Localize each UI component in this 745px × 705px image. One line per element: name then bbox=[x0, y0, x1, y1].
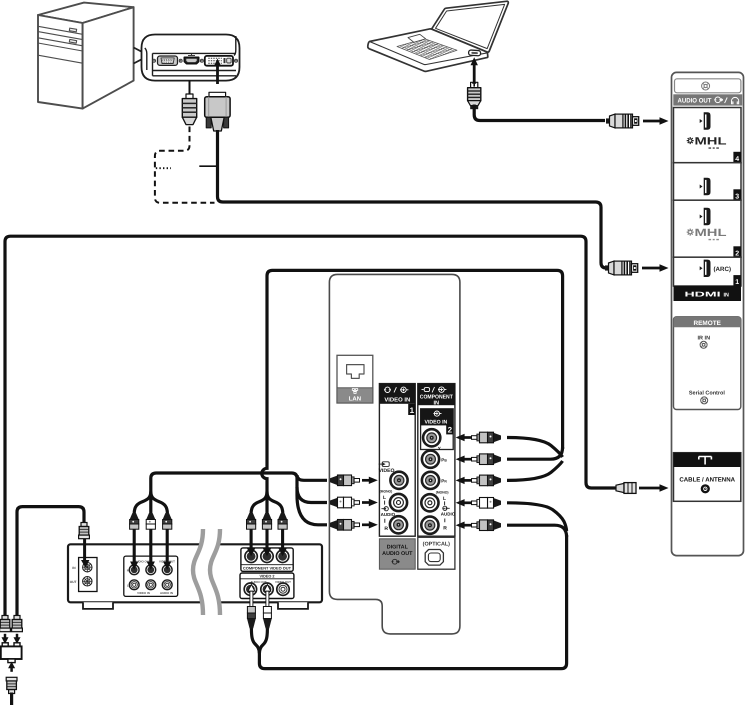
svg-text:VIDEO 2: VIDEO 2 bbox=[260, 575, 275, 579]
wire: audio fan L bbox=[507, 503, 567, 531]
f connector splitter input 1 bbox=[0, 616, 10, 632]
wire: audio bundle main run under tv bbox=[259, 535, 566, 669]
optical box bbox=[418, 537, 455, 569]
break mark band bbox=[193, 529, 220, 615]
tv side panel outline bbox=[672, 72, 744, 555]
video in 1 audio R jack bbox=[390, 516, 407, 533]
digital audio out box bbox=[379, 539, 415, 569]
svg-text:AUDIO: AUDIO bbox=[381, 512, 396, 517]
wire: av bundle receiver end fan bbox=[134, 492, 167, 515]
audio out plug R receiver bbox=[248, 585, 255, 592]
component in header bbox=[418, 384, 455, 406]
wire: av bundle tv end fan audio R bbox=[297, 495, 327, 525]
video label bbox=[379, 462, 390, 467]
wire: component fan Y bbox=[507, 438, 563, 458]
wire: audio fan R bbox=[507, 525, 567, 537]
break mark curve 2 bbox=[210, 529, 220, 615]
svg-text:COMPONENT VIDEO OUT: COMPONENT VIDEO OUT bbox=[243, 567, 292, 571]
svg-text:HDMI: HDMI bbox=[685, 292, 721, 299]
arrow into hdmi1 arc bbox=[642, 267, 660, 270]
hdmi port on pc bbox=[184, 57, 198, 63]
video 2 jacks bbox=[244, 583, 256, 595]
hdmi connector below laptop bbox=[468, 82, 481, 109]
svg-text:3: 3 bbox=[735, 193, 739, 200]
svg-text:REMOTE: REMOTE bbox=[694, 320, 722, 327]
hdmi 2 MHL logo bbox=[687, 227, 728, 240]
receiver av bottom row jacks bbox=[129, 580, 139, 590]
av plug into tv video bbox=[330, 475, 360, 486]
audio out bar bbox=[673, 94, 742, 105]
audio plug into tv R bbox=[472, 520, 502, 531]
wire: av bundle tv end fan video bbox=[297, 475, 327, 480]
component bundle plug Pr receiver bbox=[278, 513, 287, 529]
wall coax connector bbox=[6, 677, 17, 693]
component audio L jack bbox=[421, 494, 438, 511]
svg-text:2: 2 bbox=[448, 426, 453, 435]
callout blob fold lines bbox=[145, 36, 236, 70]
component Pb jack bbox=[422, 451, 439, 468]
f connector splitter input 2 bbox=[12, 616, 23, 632]
component video out group bbox=[241, 548, 293, 571]
cable antenna box bbox=[674, 453, 741, 502]
arrow up into splitter bbox=[10, 668, 13, 672]
component plug into tv Pb bbox=[472, 454, 502, 465]
hdmi section 1 arc bbox=[674, 257, 742, 286]
av bundle plug C receiver bbox=[146, 513, 155, 529]
receiver av top row jacks bbox=[129, 565, 139, 575]
laptop keyboard bbox=[397, 39, 457, 60]
svg-text:OUT: OUT bbox=[70, 580, 77, 584]
hdmi connector below pc callout bbox=[182, 94, 196, 125]
receiver antenna out jack bbox=[83, 577, 92, 586]
hdmi section 3 bbox=[674, 163, 742, 201]
svg-text:2: 2 bbox=[735, 250, 739, 257]
video 2 group bbox=[240, 573, 294, 599]
laptop base top edge bbox=[370, 42, 488, 65]
wire: component fan Pr bbox=[507, 461, 563, 480]
hdmi 3 D icon bbox=[700, 178, 711, 195]
coax connector into receiver in bbox=[79, 523, 90, 539]
svg-text:(MONO): (MONO) bbox=[436, 490, 449, 494]
audio plug into tv L bbox=[472, 498, 502, 509]
optical port icon bbox=[425, 550, 443, 566]
svg-text:IR IN: IR IN bbox=[698, 336, 711, 342]
receiver av labels bbox=[127, 560, 175, 595]
component in column box bbox=[418, 384, 455, 537]
laptop hdmi port bbox=[468, 50, 480, 56]
laptop touchpad bbox=[408, 34, 426, 42]
cable antenna jack bbox=[701, 484, 710, 493]
component audio R jack bbox=[421, 517, 438, 534]
video in 1 audio L jack bbox=[390, 494, 407, 511]
svg-text:VIDEO: VIDEO bbox=[379, 468, 395, 474]
svg-text:Y: Y bbox=[438, 446, 441, 451]
svg-text:PR: PR bbox=[441, 479, 447, 484]
wire: dvi cable from pc to hdmi1 arc bbox=[218, 130, 611, 268]
tag 2b bbox=[733, 246, 741, 257]
svg-text:(ARC): (ARC) bbox=[714, 266, 732, 273]
panel screw plate bbox=[675, 79, 741, 93]
video in header bbox=[379, 384, 415, 404]
coax connector into cable antenna bbox=[616, 483, 636, 494]
audio out icons bbox=[714, 97, 739, 104]
receiver antenna jack box bbox=[79, 558, 97, 592]
wire: dashed hdmi option cable bbox=[155, 127, 215, 203]
tag 4 bbox=[733, 152, 741, 163]
tag 1 bbox=[408, 404, 415, 415]
dvi port on pc bbox=[200, 56, 237, 66]
hdmi section 4 bbox=[674, 108, 742, 163]
hdmi 2 D icon bbox=[700, 208, 711, 225]
pc tower bbox=[38, 3, 134, 109]
ir in jack bbox=[700, 341, 707, 348]
video in 1 video jack bbox=[390, 472, 407, 489]
dvi connector below pc callout bbox=[205, 92, 230, 131]
wire: laptop hdmi cable to hdmi4 bbox=[474, 105, 605, 121]
svg-text:DIGITAL: DIGITAL bbox=[387, 545, 409, 551]
svg-text:1: 1 bbox=[410, 406, 415, 415]
hdmi 4 MHL logo bbox=[687, 136, 728, 149]
tv rear outline bbox=[329, 274, 460, 634]
svg-text:R: R bbox=[384, 526, 388, 532]
hdmi connector into hdmi1 arc bbox=[605, 261, 638, 275]
wire: antenna cable splitter to receiver in bbox=[17, 507, 84, 617]
svg-text:(MONO): (MONO) bbox=[380, 490, 393, 494]
svg-text:VIDEO IN: VIDEO IN bbox=[425, 419, 448, 425]
lan rj45 icon bbox=[347, 365, 364, 379]
receiver antenna in jack bbox=[83, 563, 92, 572]
svg-text:L: L bbox=[127, 584, 129, 588]
wire: component bundle main run with hop bbox=[262, 270, 563, 494]
lan port box bbox=[337, 355, 373, 403]
av plug into tv audio R bbox=[330, 520, 360, 531]
serial control jack bbox=[701, 397, 708, 404]
wire: av bundle tv end fan audio L bbox=[297, 487, 327, 503]
av bundle plug R receiver bbox=[163, 513, 172, 529]
hdmi 4 D icon bbox=[700, 112, 711, 129]
component Pr jack bbox=[422, 472, 439, 489]
component bundle plug Y receiver bbox=[247, 513, 256, 529]
svg-text:R: R bbox=[443, 526, 447, 532]
wire: audio bundle receiver end merge bbox=[251, 628, 267, 653]
pc front divider line bbox=[38, 55, 83, 63]
laptop screen bbox=[432, 1, 509, 52]
svg-text:CABLE / ANTENNA: CABLE / ANTENNA bbox=[679, 476, 735, 483]
svg-text:AUDIO OUT: AUDIO OUT bbox=[382, 551, 413, 557]
cable antenna black bar bbox=[674, 453, 741, 467]
wire: antenna cable splitter to tv bbox=[5, 236, 616, 617]
arrow into cable antenna bbox=[639, 487, 660, 490]
receiver foot right bbox=[278, 602, 308, 609]
svg-text:AUDIO IN: AUDIO IN bbox=[160, 591, 173, 595]
break mark curve 1 bbox=[193, 529, 203, 615]
tag 3 bbox=[733, 189, 741, 200]
antenna icon bbox=[699, 457, 712, 465]
remote box bbox=[674, 317, 741, 410]
remote bar bbox=[674, 317, 741, 328]
tag 1b bbox=[733, 275, 741, 286]
component audio labels bbox=[436, 490, 456, 531]
hdmi connector into hdmi4 bbox=[606, 114, 639, 128]
svg-text:AUDIO: AUDIO bbox=[441, 512, 456, 517]
link line arrow to connector bbox=[473, 71, 476, 83]
lan network icon bbox=[352, 389, 357, 394]
hdmi 1 D icon bbox=[700, 260, 711, 277]
svg-text:4: 4 bbox=[735, 156, 739, 163]
svg-text:L: L bbox=[443, 496, 446, 502]
svg-text:LAN: LAN bbox=[349, 396, 361, 403]
wire: dotted continuation mark bbox=[156, 167, 171, 169]
laptop screen inner border bbox=[436, 4, 505, 48]
svg-text:L: L bbox=[383, 495, 386, 501]
video in 1 column box bbox=[379, 384, 415, 537]
av plug into tv audio L bbox=[330, 497, 360, 508]
callout pointer wedge from pc bbox=[134, 48, 145, 64]
pc rear-port callout blob bbox=[142, 35, 240, 81]
component Y jack bbox=[423, 429, 440, 446]
arrow into hdmi4 bbox=[643, 120, 660, 123]
svg-text:AUDIO OUT: AUDIO OUT bbox=[678, 98, 712, 105]
component plug into tv Pr bbox=[472, 475, 502, 486]
screw bbox=[702, 82, 710, 90]
component out jacks bbox=[245, 550, 257, 562]
video in 1 audio labels bbox=[380, 490, 396, 533]
receiver foot left bbox=[83, 602, 113, 609]
svg-text:PB: PB bbox=[441, 457, 447, 462]
hdmi section 2 bbox=[674, 200, 742, 257]
av bundle plug L receiver bbox=[130, 513, 139, 529]
vga port bbox=[153, 56, 183, 65]
svg-text:VIDEO IN: VIDEO IN bbox=[384, 396, 410, 403]
laptop base bbox=[368, 29, 488, 72]
component bundle plug Pb receiver bbox=[262, 513, 271, 529]
hdmi in bar bbox=[674, 286, 742, 301]
receiver av jack group bbox=[124, 556, 178, 596]
port strip bbox=[153, 53, 237, 75]
pc drive bay 2 bbox=[38, 38, 83, 51]
audio out plug L receiver bbox=[264, 585, 271, 592]
wire: av bundle main run to tv video in 1 bbox=[151, 473, 297, 495]
pc drive bay 1 bbox=[38, 26, 83, 39]
svg-text:Serial Control: Serial Control bbox=[689, 391, 726, 397]
arrow up into dvi port bbox=[216, 65, 219, 85]
wire: component fan Pb bbox=[507, 447, 563, 459]
wall antenna cable bbox=[10, 693, 13, 705]
wire: junction tick dashed-to-dvi bbox=[199, 165, 217, 167]
svg-text:IN: IN bbox=[724, 292, 729, 298]
component plug into tv Y bbox=[472, 432, 502, 443]
arrow up into laptop port bbox=[473, 65, 476, 72]
svg-text:IN: IN bbox=[434, 400, 440, 406]
svg-text:VIDEO IN: VIDEO IN bbox=[137, 591, 150, 595]
antenna splitter bbox=[1, 643, 22, 663]
svg-text:1: 1 bbox=[735, 279, 739, 286]
svg-text:(OPTICAL): (OPTICAL) bbox=[423, 541, 450, 547]
video in 2 box bbox=[421, 409, 454, 450]
wire: component bundle receiver end fan bbox=[251, 492, 283, 515]
tag 2 bbox=[446, 424, 453, 434]
receiver chassis bbox=[68, 544, 322, 602]
stub from hdmi port down bbox=[189, 81, 191, 95]
